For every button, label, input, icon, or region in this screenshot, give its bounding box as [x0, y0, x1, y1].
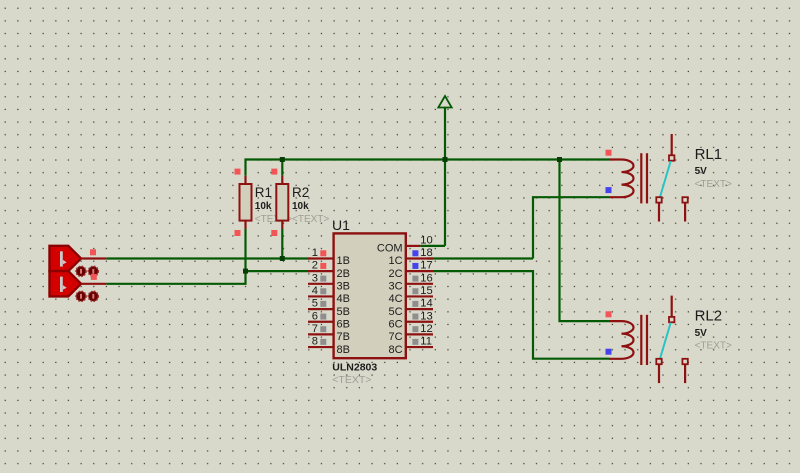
U1 pin 17 (2C) — [406, 270, 433, 272]
U1 pin 16 (3C) — [406, 283, 433, 285]
U1 pin 14 (5C) — [406, 308, 433, 310]
connector pad 1b — [88, 266, 98, 276]
U1 pin 11 (8C) — [406, 346, 433, 348]
svg-text:10k: 10k — [292, 201, 309, 212]
U1 pin 18 (1C) — [406, 257, 433, 259]
svg-text:14: 14 — [420, 298, 432, 310]
svg-text:10k: 10k — [255, 201, 272, 212]
wire connector pin1 to U1 pin1 — [106, 257, 309, 259]
connector pin 2 state square — [91, 274, 97, 280]
svg-text:1: 1 — [312, 247, 318, 259]
op U1 body — [334, 233, 406, 358]
wire power arrow vertical — [444, 108, 446, 246]
svg-text:3C: 3C — [389, 281, 403, 293]
wire to U1 pin 10 — [420, 245, 445, 247]
svg-text:4C: 4C — [389, 293, 403, 305]
U1 pin 7 (7B) — [308, 333, 334, 335]
wire R2 bottom — [281, 229, 283, 259]
junction R1-pin2 net — [243, 269, 248, 274]
svg-text:ULN2803: ULN2803 — [332, 362, 377, 374]
connector pad 2b — [88, 291, 98, 301]
svg-text:4B: 4B — [337, 293, 350, 305]
svg-text:RL2: RL2 — [695, 308, 723, 325]
svg-text:5: 5 — [312, 298, 318, 310]
svg-text:5V: 5V — [695, 166, 708, 177]
resistor R1 state squares — [235, 169, 241, 175]
wire U1 pin17 to relay2 — [433, 271, 609, 359]
svg-text:U1: U1 — [332, 217, 350, 233]
resistor R2 state squares — [271, 169, 277, 175]
svg-text:10: 10 — [420, 234, 432, 246]
relay RL1 coil state squares — [606, 150, 612, 156]
svg-text:7C: 7C — [389, 331, 403, 343]
svg-text:<TEXT>: <TEXT> — [695, 179, 732, 190]
U1 pin 10 (COM) — [406, 245, 421, 247]
relay RL1 contact NO — [656, 197, 661, 202]
U1 pin 8 (8B) — [308, 346, 334, 348]
relay RL2 pole pin — [671, 296, 673, 318]
svg-text:18: 18 — [420, 247, 432, 259]
connector pin 2 stub — [81, 283, 106, 285]
junction R2-pin1 net — [280, 256, 285, 261]
resistor R2 body — [276, 184, 288, 221]
svg-text:8: 8 — [312, 336, 318, 348]
svg-text:R1: R1 — [255, 185, 272, 200]
relay RL1 core — [640, 153, 642, 203]
svg-text:1C: 1C — [389, 255, 403, 267]
wire power rail top — [246, 160, 610, 176]
wire relay1 coil bottom to pin18 net — [533, 197, 609, 258]
connector J? terminal 1 — [50, 246, 82, 271]
svg-text:8C: 8C — [389, 344, 403, 356]
relay RL2 coil state squares — [606, 311, 612, 317]
resistor R1 pins — [244, 176, 246, 184]
svg-text:11: 11 — [420, 336, 432, 348]
junction relay2 feed — [557, 157, 562, 162]
svg-text:<TEXT>: <TEXT> — [695, 341, 732, 352]
wire R1 bottom — [244, 229, 246, 272]
resistor R1 body — [240, 184, 252, 221]
svg-text:5B: 5B — [337, 306, 350, 318]
svg-text:5V: 5V — [695, 328, 708, 339]
svg-text:6: 6 — [312, 310, 318, 322]
relay RL1 pole pin — [671, 134, 673, 156]
svg-text:16: 16 — [420, 272, 432, 284]
U1 pin 15 (4C) — [406, 295, 433, 297]
connector terminal 2 arrow glyph — [60, 277, 63, 292]
wire R2 top to rail — [281, 160, 283, 176]
connector pad 1a — [76, 266, 86, 276]
svg-text:2B: 2B — [337, 268, 350, 280]
U1 pin 6 (6B) — [308, 321, 334, 323]
svg-text:6C: 6C — [389, 318, 403, 330]
connector pad 2a — [76, 291, 86, 301]
svg-text:3B: 3B — [337, 281, 350, 293]
resistor R2 pins — [281, 176, 283, 184]
U1 pin 1 (1B) — [308, 257, 334, 259]
svg-text:17: 17 — [420, 260, 432, 272]
svg-text:3: 3 — [312, 272, 318, 284]
svg-text:6B: 6B — [337, 318, 350, 330]
U1 pin 4 (4B) — [308, 295, 334, 297]
relay RL2 core — [640, 315, 642, 365]
U1 pin 2 (2B) — [308, 270, 334, 272]
relay RL1 moving contact — [660, 161, 671, 197]
relay RL1 coil — [609, 160, 634, 198]
svg-text:5C: 5C — [389, 306, 403, 318]
relay RL2 contact NO — [656, 359, 661, 364]
svg-text:15: 15 — [420, 285, 432, 297]
svg-text:2: 2 — [312, 260, 318, 272]
U1 pin 13 (6C) — [406, 321, 433, 323]
svg-text:2C: 2C — [389, 268, 403, 280]
connector terminal 2 — [50, 271, 82, 296]
relay RL2 contact NC — [682, 359, 687, 364]
svg-text:<TEXT>: <TEXT> — [332, 374, 371, 386]
svg-text:1B: 1B — [337, 255, 350, 267]
wire U1 pin18 to relay1 — [427, 257, 533, 259]
connector terminal 1 arrow glyph — [60, 251, 63, 266]
wire connector pin2 to U1 pin2 — [106, 271, 309, 284]
svg-text:8B: 8B — [337, 344, 350, 356]
U1 pin 5 (5B) — [308, 308, 334, 310]
connector pin 1 stub — [81, 257, 106, 259]
svg-text:7B: 7B — [337, 331, 350, 343]
svg-text:13: 13 — [420, 310, 432, 322]
junction power-rail — [443, 157, 448, 162]
relay RL1 contact NC — [682, 197, 687, 202]
svg-text:<TEXT>: <TEXT> — [292, 214, 329, 225]
svg-text:COM: COM — [377, 243, 403, 255]
svg-text:4: 4 — [312, 285, 318, 297]
U1 pin 12 (7C) — [406, 333, 433, 335]
svg-text:RL1: RL1 — [695, 146, 723, 163]
svg-text:R2: R2 — [292, 185, 309, 200]
U1 pin 3 (3B) — [308, 283, 334, 285]
relay RL2 moving contact — [660, 323, 671, 359]
junction R2-rail — [280, 157, 285, 162]
power symbol (arrow up) — [438, 96, 451, 108]
svg-text:7: 7 — [312, 323, 318, 335]
connector pin 1 state square — [90, 249, 96, 255]
relay RL2 coil — [609, 321, 634, 359]
svg-text:12: 12 — [420, 323, 432, 335]
wire relay2 supply — [560, 160, 610, 322]
